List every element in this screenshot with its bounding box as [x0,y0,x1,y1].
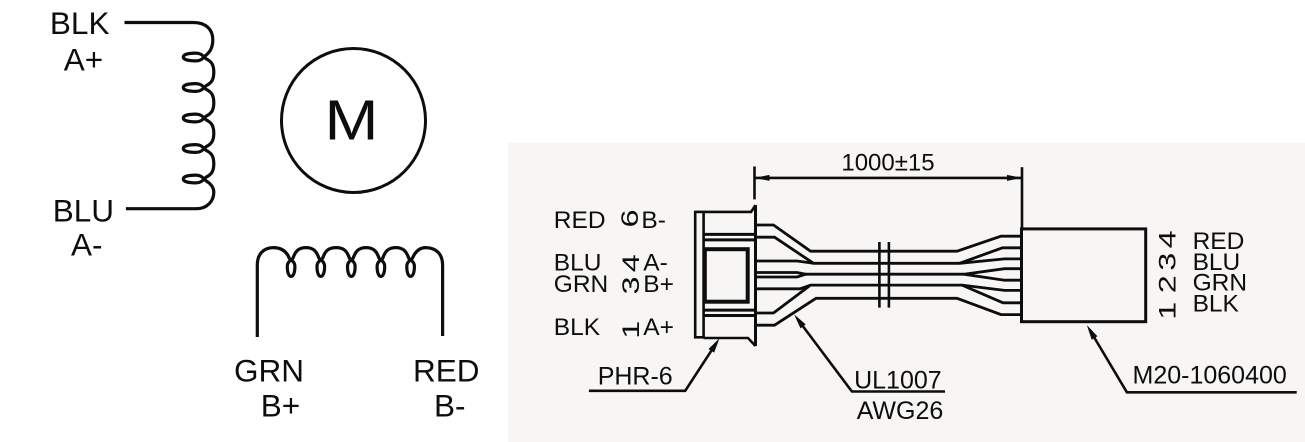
wire GRN pin3 lower edge / BLK boundary [757,285,1022,290]
connector J2 M20-1060400 housing [1022,229,1146,322]
coil L2 phase B winding with leads [257,248,442,337]
motor M circle [282,49,426,193]
leader M20-1060400 [1087,325,1297,392]
svg-text:A-: A- [71,226,103,262]
wire GRN pin3 upper edge [757,274,1022,280]
svg-text:1: 1 [618,321,645,339]
coil L1 phase A winding with leads [125,23,214,209]
wire RED pin6 upper edge [757,225,1022,251]
svg-text:GRN: GRN [234,353,304,389]
svg-text:B-: B- [434,388,466,424]
pin label BLK 1 A+ [554,314,674,341]
dimension 1000±15 with extension lines and arrows [755,150,1023,229]
label BLU A- (phase A minus lead) [53,193,114,263]
svg-text:4: 4 [618,254,645,272]
svg-text:1: 1 [1154,302,1181,320]
leader PHR-6 [589,338,720,391]
pin label BLU 4 A- [554,249,668,276]
wire BLK pin1 lower edge [757,298,1022,325]
pin label GRN 3 B+ [554,271,674,298]
svg-text:4: 4 [1154,230,1181,248]
wire BLU pin4 lower edge (pinch to centre line) [757,269,1022,275]
svg-text:BLK: BLK [50,5,110,41]
svg-text:AWG26: AWG26 [857,397,944,425]
svg-text:M20-1060400: M20-1060400 [1133,362,1287,390]
svg-text:PHR-6: PHR-6 [598,363,673,391]
svg-text:BLK: BLK [554,314,601,341]
svg-text:UL1007: UL1007 [854,366,942,394]
gray panel background of cable drawing [508,143,1305,442]
svg-text:BLK: BLK [1193,291,1240,318]
wire BLU pin4 upper edge [757,259,1022,263]
svg-text:A+: A+ [643,314,674,341]
label RED B- (phase B minus lead) [413,353,480,424]
svg-text:BLU: BLU [53,193,114,229]
wire BLK pin1 upper edge [757,285,1022,313]
svg-text:1000±15: 1000±15 [841,150,934,177]
label BLK A+ (phase A plus lead) [50,5,110,77]
connector J1 PHR-6 housing [695,205,755,346]
svg-text:RED: RED [413,353,480,389]
svg-text:B+: B+ [643,271,674,298]
svg-text:B+: B+ [261,388,300,424]
pin label RED 6 B- [554,207,666,234]
svg-text:B-: B- [641,207,666,234]
svg-text:A+: A+ [64,41,103,77]
svg-text:GRN: GRN [554,271,608,298]
svg-text:3: 3 [1154,253,1181,271]
wire colour list RED BLU GRN BLK [1193,228,1247,318]
wire bundle centre line [806,273,964,276]
svg-text:RED: RED [554,207,606,234]
svg-text:2: 2 [1154,275,1181,293]
cable break marks [879,242,889,308]
label GRN B+ (phase B plus lead) [234,353,304,424]
svg-text:6: 6 [617,209,644,227]
svg-text:3: 3 [618,276,645,294]
svg-text:M: M [325,89,379,152]
leader UL1007 AWG26 [794,314,945,424]
wire RED pin6 lower edge / BLU boundary [757,237,1022,263]
pin numbers 4 3 2 1 (rotated) [1154,230,1181,319]
